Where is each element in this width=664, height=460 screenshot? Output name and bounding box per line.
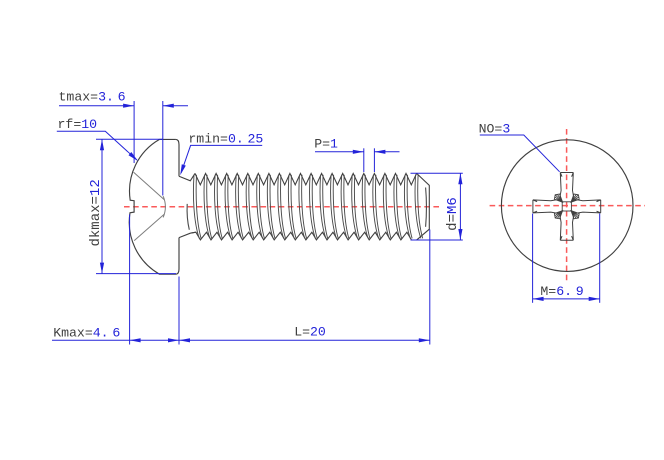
shank surface at head (top) [179, 173, 195, 180]
front view centerline vertical [566, 129, 568, 281]
dimension M=6.9 line and arrows [533, 298, 600, 300]
extension line under head face (Kmax right / L left) [178, 277, 180, 345]
front view centerline horizontal [490, 205, 645, 207]
dimension M=6.9 extension lines [532, 214, 534, 303]
dimension d=M6 line and arrows [459, 173, 461, 240]
svg-text:M=6. 9: M=6. 9 [540, 284, 583, 299]
dimension dkmax=12 line and arrows [101, 139, 103, 273]
dimension tmax=3.6 line and arrows [59, 105, 134, 107]
svg-text:NO=3: NO=3 [479, 121, 511, 136]
screw head (pan head side view outline) [129, 139, 179, 274]
leader NO=3 [480, 135, 560, 172]
dimension d=M6 extension lines [411, 172, 463, 174]
dimension dkmax=12 extension lines [96, 138, 163, 140]
svg-text:rmin=0. 25: rmin=0. 25 [188, 131, 263, 146]
svg-text:dkmax=12: dkmax=12 [88, 179, 104, 246]
svg-text:d=M6: d=M6 [445, 197, 461, 231]
shank surface at head (bottom) [179, 232, 196, 237]
leader rf=10 [57, 131, 137, 160]
thread root zigzag (bottom edge) [191, 232, 411, 240]
svg-text:tmax=3. 6: tmax=3. 6 [59, 90, 126, 105]
dimension Kmax=4.6 line and arrows [52, 339, 130, 341]
svg-text:L=20: L=20 [294, 325, 326, 340]
dimension P=1 extension lines [363, 148, 365, 172]
thread end chamfer and end face [416, 173, 429, 240]
thread crest zigzag (top edge) [195, 173, 417, 184]
dimension P=1 line and arrows [315, 151, 364, 153]
svg-text:P=1: P=1 [314, 137, 338, 152]
head circle (front view) [501, 140, 633, 272]
thread flank lines (helix) [193, 175, 422, 239]
extension line from thread end (L right) [429, 230, 431, 345]
phillips cross recess (front view) [560, 173, 573, 202]
thread runout flank near head [187, 204, 189, 230]
phillips recess cone profile (thin lines inside head) [134, 172, 165, 199]
extension line from recess notch (Kmax left) [129, 215, 131, 345]
dimension L=20 line and arrows [179, 339, 430, 341]
leader rmin=0.25 [181, 145, 262, 172]
centerline (side view) [124, 206, 440, 208]
svg-text:Kmax=4. 6: Kmax=4. 6 [53, 325, 120, 340]
svg-text:rf=10: rf=10 [58, 117, 98, 132]
dimension tmax=3.6 extension lines [133, 101, 135, 163]
